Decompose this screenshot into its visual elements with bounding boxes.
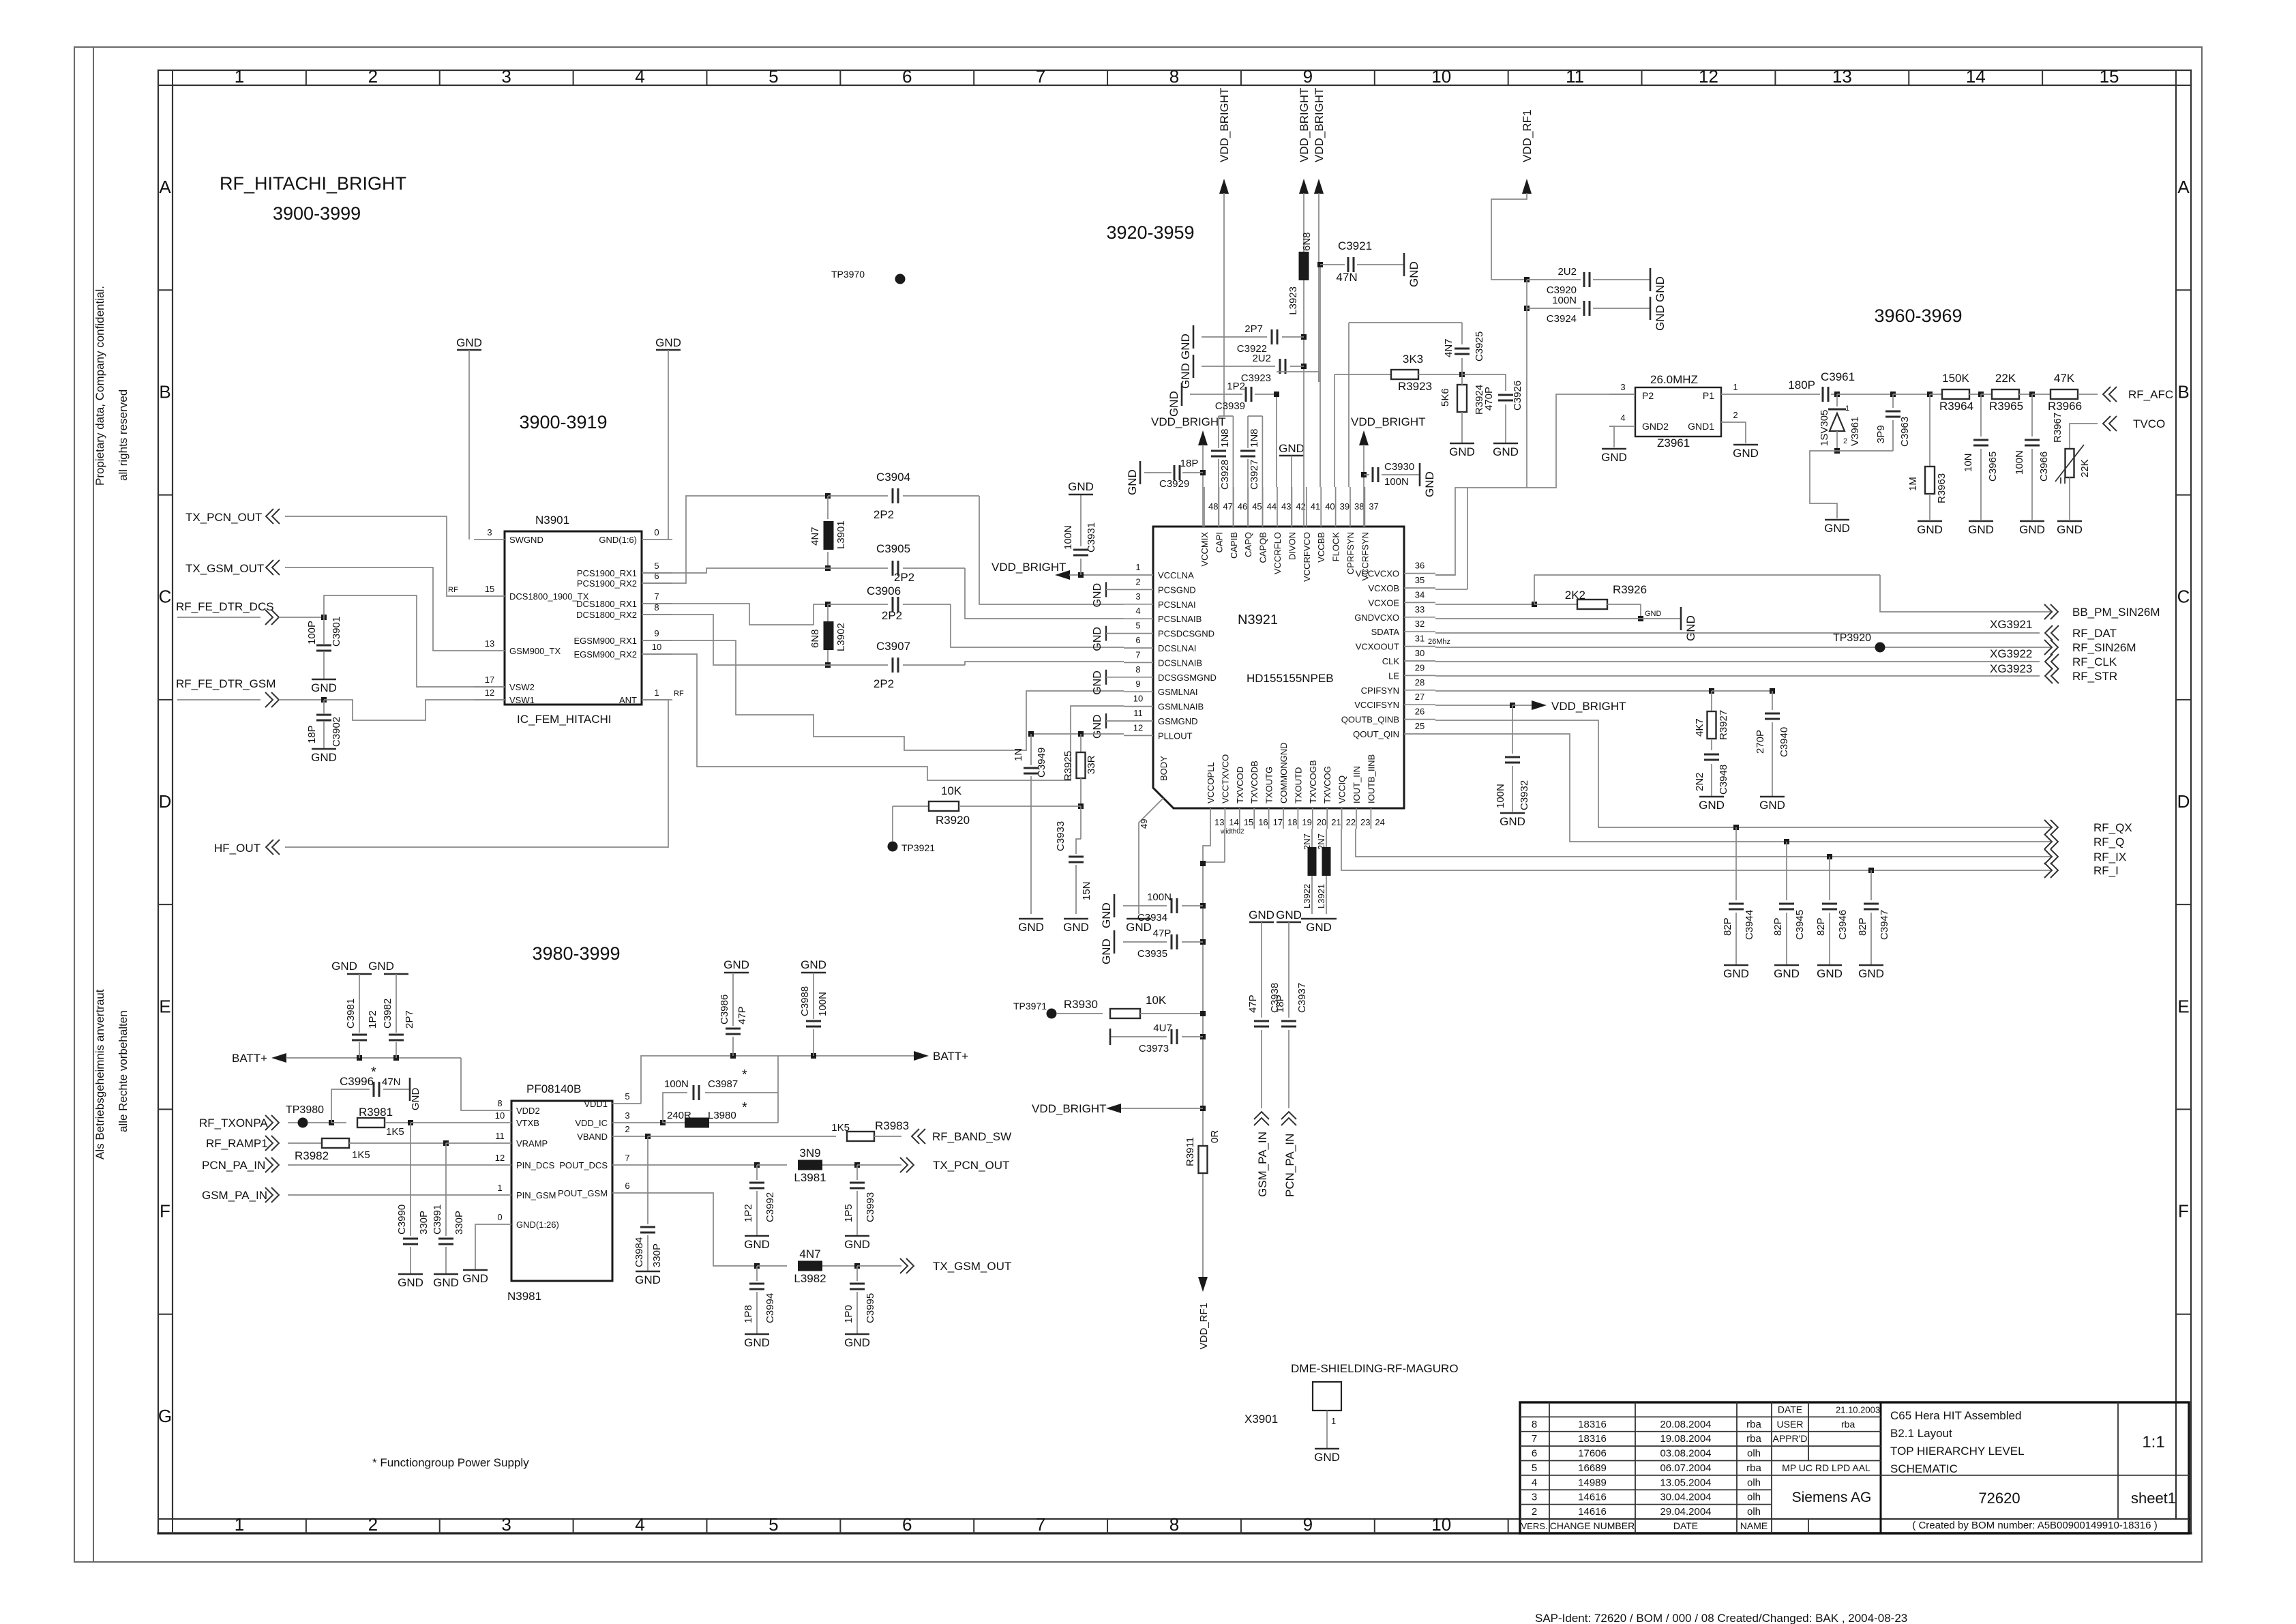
svg-text:GND: GND [1449, 445, 1475, 458]
svg-text:GND: GND [1824, 522, 1850, 535]
svg-text:CPRFSYN: CPRFSYN [1345, 532, 1356, 574]
svg-text:rba: rba [1746, 1433, 1761, 1445]
svg-text:TP3921: TP3921 [901, 842, 935, 853]
svg-text:VDD_BRIGHT: VDD_BRIGHT [1298, 87, 1311, 162]
svg-text:IC_FEM_HITACHI: IC_FEM_HITACHI [517, 713, 612, 726]
svg-text:1P2: 1P2 [367, 1010, 378, 1029]
svg-text:GND: GND [1063, 921, 1089, 934]
svg-text:3: 3 [487, 527, 492, 537]
svg-text:20.08.2004: 20.08.2004 [1660, 1419, 1711, 1430]
svg-text:C3907: C3907 [876, 640, 910, 653]
svg-text:VCXOB: VCXOB [1368, 583, 1399, 593]
svg-text:TX_GSM_OUT: TX_GSM_OUT [933, 1260, 1011, 1273]
svg-text:XG3923: XG3923 [1990, 662, 2032, 675]
svg-text:6: 6 [625, 1181, 629, 1191]
svg-text:( Created by BOM number: A5B00: ( Created by BOM number: A5B00900149910-… [1912, 1520, 2157, 1531]
svg-text:2N2: 2N2 [1694, 772, 1705, 791]
svg-text:GND: GND [1068, 480, 1094, 493]
svg-text:4N7: 4N7 [809, 527, 821, 546]
svg-text:VCCOPLL: VCCOPLL [1206, 762, 1216, 803]
svg-text:N3921: N3921 [1238, 612, 1278, 628]
svg-text:10N: 10N [1963, 453, 1974, 472]
svg-text:C65 Hera HIT Assembled: C65 Hera HIT Assembled [1890, 1409, 2021, 1422]
svg-text:L3980: L3980 [708, 1110, 736, 1121]
svg-text:3: 3 [501, 66, 511, 87]
svg-text:QOUTB_QINB: QOUTB_QINB [1341, 715, 1399, 725]
svg-text:TX_GSM_OUT: TX_GSM_OUT [185, 562, 264, 575]
svg-text:RF: RF [448, 586, 458, 594]
svg-text:10: 10 [495, 1110, 505, 1121]
svg-text:SAP-Ident: 72620 / BOM / 000 /: SAP-Ident: 72620 / BOM / 000 / 08 Create… [1535, 1612, 1907, 1624]
svg-text:RF_RAMP1: RF_RAMP1 [206, 1137, 268, 1150]
svg-text:C3947: C3947 [1879, 910, 1890, 940]
svg-text:GNDVCXO: GNDVCXO [1354, 612, 1399, 623]
svg-text:1: 1 [1845, 404, 1849, 413]
svg-text:VCCRFSYN: VCCRFSYN [1360, 532, 1370, 581]
svg-text:DME-SHIELDING-RF-MAGURO: DME-SHIELDING-RF-MAGURO [1291, 1362, 1459, 1375]
svg-text:12: 12 [495, 1153, 505, 1163]
svg-text:alle Rechte vorbehalten: alle Rechte vorbehalten [117, 1010, 130, 1132]
svg-text:GND: GND [1733, 447, 1759, 460]
svg-text:10: 10 [1431, 1514, 1451, 1535]
svg-text:GND: GND [1423, 471, 1436, 497]
svg-text:R3920: R3920 [936, 814, 970, 827]
svg-text:USER: USER [1777, 1419, 1804, 1430]
svg-text:18P: 18P [306, 725, 318, 743]
svg-text:100N: 100N [664, 1078, 689, 1090]
svg-text:DCS1800_RX2: DCS1800_RX2 [576, 610, 637, 620]
svg-text:CAPIB: CAPIB [1229, 532, 1239, 559]
svg-text:P2: P2 [1642, 390, 1654, 401]
svg-text:36: 36 [1415, 561, 1425, 571]
svg-text:C3932: C3932 [1519, 780, 1530, 810]
svg-text:GND: GND [433, 1276, 459, 1289]
svg-text:GND1: GND1 [1688, 421, 1714, 432]
svg-text:TP3920: TP3920 [1833, 632, 1871, 644]
svg-text:GND: GND [744, 1336, 770, 1349]
svg-text:2P7: 2P7 [404, 1010, 415, 1029]
svg-text:CAPQ: CAPQ [1243, 532, 1253, 557]
svg-text:33: 33 [1415, 604, 1425, 615]
svg-text:49: 49 [1139, 819, 1149, 829]
svg-text:C3949: C3949 [1036, 748, 1047, 778]
svg-text:2: 2 [625, 1124, 629, 1134]
svg-text:VBAND: VBAND [577, 1132, 608, 1142]
svg-text:C3905: C3905 [876, 542, 910, 555]
svg-text:2N7: 2N7 [1316, 833, 1326, 850]
svg-text:15N: 15N [1081, 881, 1092, 900]
svg-text:GND: GND [1723, 967, 1749, 980]
svg-text:IOUT_IIN: IOUT_IIN [1352, 766, 1362, 803]
svg-text:PCSGND: PCSGND [1158, 585, 1196, 595]
svg-text:GND: GND [1092, 714, 1103, 739]
svg-text:10: 10 [1431, 66, 1451, 87]
svg-text:1: 1 [654, 688, 659, 698]
svg-text:33R: 33R [1086, 755, 1097, 774]
svg-text:TXVCOGB: TXVCOGB [1308, 760, 1318, 803]
svg-text:470P: 470P [1483, 387, 1495, 411]
svg-text:PLLOUT: PLLOUT [1158, 730, 1193, 741]
svg-text:GSM_PA_IN: GSM_PA_IN [1256, 1132, 1269, 1197]
svg-text:2: 2 [1135, 576, 1140, 587]
svg-text:* Functiongroup Power Supply: * Functiongroup Power Supply [372, 1456, 529, 1469]
svg-text:2: 2 [1843, 437, 1847, 445]
svg-text:GND: GND [1817, 967, 1843, 980]
svg-text:GND: GND [1092, 670, 1103, 695]
svg-text:C3945: C3945 [1794, 910, 1806, 940]
svg-text:10K: 10K [941, 784, 962, 797]
svg-text:GND: GND [456, 336, 482, 349]
svg-text:GND: GND [1276, 909, 1302, 921]
svg-text:100N: 100N [817, 992, 829, 1016]
svg-text:GND: GND [1500, 815, 1525, 828]
svg-text:C3933: C3933 [1055, 821, 1067, 851]
svg-text:GSMGND: GSMGND [1158, 716, 1198, 726]
svg-text:C3991: C3991 [432, 1205, 443, 1235]
svg-text:CPIFSYN: CPIFSYN [1361, 685, 1399, 696]
svg-text:VDD_BRIGHT: VDD_BRIGHT [1351, 415, 1426, 428]
svg-text:2P2: 2P2 [874, 677, 894, 690]
svg-text:L3921: L3921 [1316, 884, 1326, 909]
svg-text:1: 1 [1331, 1416, 1336, 1426]
svg-text:GND: GND [1968, 523, 1994, 536]
svg-text:GND: GND [1092, 627, 1103, 651]
svg-text:VTXB: VTXB [516, 1118, 539, 1128]
svg-text:C3902: C3902 [331, 717, 342, 747]
svg-text:HD155155NPEB: HD155155NPEB [1247, 672, 1334, 685]
svg-text:11: 11 [1566, 66, 1584, 87]
svg-text:GND: GND [1306, 921, 1332, 934]
svg-text:C: C [159, 587, 172, 607]
svg-text:100N: 100N [1384, 476, 1409, 488]
svg-text:DIVON: DIVON [1287, 532, 1297, 560]
svg-text:GND: GND [2019, 523, 2045, 536]
svg-text:L3982: L3982 [794, 1272, 826, 1285]
svg-text:C3984: C3984 [633, 1237, 645, 1267]
svg-text:R3964: R3964 [1939, 400, 1973, 413]
svg-text:C3928: C3928 [1219, 460, 1231, 490]
svg-text:6N8: 6N8 [809, 629, 821, 648]
svg-text:POUT_GSM: POUT_GSM [558, 1188, 608, 1198]
svg-text:100N: 100N [2014, 450, 2025, 475]
svg-text:1N8: 1N8 [1249, 428, 1260, 447]
svg-text:44: 44 [1267, 501, 1277, 512]
svg-text:DCSLNAI: DCSLNAI [1158, 643, 1196, 653]
svg-text:F: F [2178, 1201, 2189, 1222]
svg-text:14: 14 [1229, 817, 1238, 827]
svg-text:C3982: C3982 [382, 999, 393, 1029]
svg-text:13.05.2004: 13.05.2004 [1660, 1477, 1711, 1488]
svg-text:all rights reserved: all rights reserved [117, 389, 130, 481]
svg-text:GND: GND [635, 1273, 661, 1286]
svg-text:IOUTB_IINB: IOUTB_IINB [1366, 754, 1376, 803]
svg-text:2: 2 [368, 1514, 378, 1535]
svg-text:12: 12 [1133, 722, 1143, 733]
svg-text:2P7: 2P7 [1244, 323, 1263, 335]
svg-text:PIN_DCS: PIN_DCS [516, 1160, 555, 1170]
svg-text:82P: 82P [1772, 917, 1784, 936]
svg-text:C3965: C3965 [1987, 452, 1999, 482]
svg-text:15: 15 [485, 584, 494, 594]
svg-text:1P8: 1P8 [743, 1305, 754, 1323]
svg-text:P1: P1 [1703, 390, 1714, 401]
svg-text:CAPQB: CAPQB [1258, 532, 1268, 563]
svg-text:7: 7 [1036, 66, 1045, 87]
svg-text:GND: GND [1092, 583, 1103, 608]
svg-text:VERS.: VERS. [1521, 1521, 1547, 1531]
svg-text:15: 15 [2100, 66, 2119, 87]
svg-text:R3981: R3981 [359, 1106, 393, 1119]
svg-text:RF_SIN26M: RF_SIN26M [2072, 641, 2136, 654]
svg-text:C3935: C3935 [1137, 948, 1167, 960]
svg-text:17: 17 [485, 675, 494, 685]
svg-text:ANT: ANT [619, 695, 637, 705]
svg-text:width02: width02 [1220, 828, 1244, 836]
svg-text:2: 2 [1733, 410, 1738, 420]
svg-text:QOUT_QIN: QOUT_QIN [1353, 729, 1399, 739]
svg-text:21.10.2003: 21.10.2003 [1836, 1404, 1880, 1415]
svg-text:R3966: R3966 [2048, 400, 2082, 413]
svg-text:19: 19 [1302, 817, 1311, 827]
svg-text:RF_HITACHI_BRIGHT: RF_HITACHI_BRIGHT [220, 173, 406, 194]
svg-text:VDD_BRIGHT: VDD_BRIGHT [1313, 87, 1326, 162]
svg-text:GND: GND [1645, 610, 1662, 618]
svg-text:14616: 14616 [1578, 1506, 1607, 1518]
svg-text:C3988: C3988 [799, 986, 811, 1016]
svg-text:18316: 18316 [1578, 1433, 1607, 1445]
svg-text:VSW2: VSW2 [509, 682, 535, 692]
svg-text:GND: GND [1684, 615, 1697, 641]
svg-text:GND: GND [398, 1276, 423, 1289]
svg-text:C3927: C3927 [1249, 460, 1260, 490]
svg-text:TP3970: TP3970 [831, 269, 865, 280]
svg-text:E: E [159, 996, 170, 1016]
svg-text:9: 9 [1303, 66, 1313, 87]
svg-text:A: A [159, 177, 171, 197]
svg-text:R3925: R3925 [1062, 751, 1074, 781]
svg-text:GND: GND [410, 1088, 421, 1111]
svg-text:1N: 1N [1013, 748, 1024, 761]
svg-text:GND: GND [1100, 939, 1113, 964]
svg-text:8: 8 [1532, 1419, 1537, 1430]
svg-text:12: 12 [1699, 66, 1718, 87]
svg-text:10: 10 [1133, 694, 1143, 704]
svg-text:30.04.2004: 30.04.2004 [1660, 1492, 1711, 1503]
svg-text:VDD1: VDD1 [584, 1099, 608, 1109]
svg-text:GND: GND [1774, 967, 1800, 980]
svg-text:C3948: C3948 [1718, 765, 1729, 795]
svg-text:VCXOE: VCXOE [1368, 597, 1399, 608]
svg-text:LE: LE [1388, 670, 1399, 681]
svg-text:C3992: C3992 [764, 1192, 776, 1222]
svg-text:72620: 72620 [1978, 1490, 2020, 1507]
svg-text:GND: GND [1179, 334, 1192, 359]
svg-text:C3931: C3931 [1086, 522, 1097, 552]
svg-text:GND: GND [1314, 1451, 1340, 1464]
svg-text:1SV305: 1SV305 [1819, 410, 1830, 446]
svg-text:11: 11 [1133, 708, 1143, 718]
svg-text:0: 0 [654, 527, 659, 537]
svg-text:9: 9 [654, 628, 659, 638]
svg-text:47K: 47K [2054, 372, 2075, 385]
svg-text:1: 1 [1135, 562, 1140, 572]
svg-text:3960-3969: 3960-3969 [1874, 306, 1962, 326]
svg-text:25: 25 [1415, 721, 1425, 731]
svg-text:9: 9 [1135, 679, 1140, 689]
svg-text:GND: GND [1654, 276, 1667, 302]
svg-text:MP UC RD LPD AAL: MP UC RD LPD AAL [1782, 1462, 1870, 1473]
svg-text:RF_I: RF_I [2093, 864, 2119, 877]
svg-text:BATT+: BATT+ [232, 1052, 267, 1065]
svg-text:24: 24 [1375, 817, 1384, 827]
svg-text:GND: GND [1100, 902, 1113, 928]
svg-text:olh: olh [1747, 1477, 1761, 1488]
svg-text:C3904: C3904 [876, 471, 910, 484]
svg-text:3P9: 3P9 [1875, 425, 1887, 443]
svg-text:GND: GND [1249, 909, 1274, 921]
svg-text:1K5: 1K5 [386, 1126, 404, 1138]
svg-text:1:1: 1:1 [2142, 1433, 2164, 1451]
svg-text:C3994: C3994 [764, 1293, 776, 1323]
svg-text:E: E [2177, 996, 2189, 1016]
svg-text:28: 28 [1415, 677, 1425, 688]
svg-text:VRAMP: VRAMP [516, 1138, 548, 1149]
svg-text:100N: 100N [1062, 525, 1074, 550]
svg-text:rba: rba [1841, 1419, 1855, 1430]
svg-text:TXOUTG: TXOUTG [1264, 767, 1274, 803]
svg-text:R3967: R3967 [2052, 413, 2063, 443]
svg-text:1P2: 1P2 [743, 1204, 754, 1222]
svg-text:R3927: R3927 [1718, 710, 1729, 740]
svg-text:26.0MHZ: 26.0MHZ [1650, 373, 1698, 386]
svg-text:3K3: 3K3 [1403, 353, 1423, 366]
svg-text:15: 15 [1244, 817, 1253, 827]
svg-text:39: 39 [1340, 501, 1350, 512]
svg-text:4N7: 4N7 [799, 1247, 820, 1260]
svg-text:DCS1800_RX1: DCS1800_RX1 [576, 599, 637, 609]
svg-text:22K: 22K [1995, 372, 2016, 385]
svg-text:5: 5 [1135, 621, 1140, 631]
svg-text:VDD_BRIGHT: VDD_BRIGHT [992, 561, 1067, 574]
svg-text:B: B [2177, 381, 2189, 402]
svg-text:2P2: 2P2 [894, 571, 914, 584]
svg-text:06.07.2004: 06.07.2004 [1660, 1462, 1711, 1474]
svg-text:RF_Q: RF_Q [2093, 836, 2124, 848]
svg-text:150K: 150K [1942, 372, 1969, 385]
svg-text:1: 1 [497, 1183, 502, 1193]
svg-text:L3981: L3981 [794, 1171, 826, 1184]
svg-text:GND2: GND2 [1642, 421, 1669, 432]
svg-text:olh: olh [1747, 1448, 1761, 1460]
svg-text:18P: 18P [1180, 458, 1199, 469]
svg-text:C: C [2177, 587, 2190, 607]
svg-text:C3993: C3993 [865, 1192, 876, 1222]
svg-text:N3981: N3981 [507, 1290, 541, 1303]
svg-text:Propietary data, Company confi: Propietary data, Company confidential. [93, 286, 106, 486]
svg-text:38: 38 [1354, 501, 1364, 512]
svg-text:VCCIQ: VCCIQ [1337, 776, 1347, 803]
svg-text:RF_FE_DTR_GSM: RF_FE_DTR_GSM [176, 677, 275, 690]
svg-text:4: 4 [635, 66, 644, 87]
svg-text:3980-3999: 3980-3999 [532, 943, 620, 964]
svg-text:DATE: DATE [1673, 1520, 1698, 1531]
svg-text:7: 7 [1036, 1514, 1045, 1535]
svg-text:0: 0 [497, 1212, 502, 1222]
svg-text:5: 5 [769, 1514, 778, 1535]
svg-text:32: 32 [1415, 619, 1425, 629]
svg-text:TOP HIERARCHY LEVEL: TOP HIERARCHY LEVEL [1890, 1445, 2025, 1458]
svg-text:rba: rba [1746, 1462, 1761, 1474]
svg-text:1K5: 1K5 [352, 1149, 370, 1161]
svg-text:21: 21 [1331, 817, 1341, 827]
svg-text:TP3971: TP3971 [1013, 1001, 1047, 1012]
svg-text:GSMLNAIB: GSMLNAIB [1158, 702, 1204, 712]
svg-text:16: 16 [1258, 817, 1268, 827]
svg-text:100N: 100N [1495, 784, 1506, 808]
svg-text:1P0: 1P0 [843, 1305, 854, 1323]
svg-text:2U2: 2U2 [1557, 266, 1577, 278]
svg-text:GND: GND [311, 681, 337, 694]
svg-text:TX_PCN_OUT: TX_PCN_OUT [185, 511, 262, 524]
svg-text:VCCMIX: VCCMIX [1199, 532, 1210, 567]
svg-text:rba: rba [1746, 1419, 1761, 1430]
svg-text:2N7: 2N7 [1302, 833, 1312, 850]
svg-text:3: 3 [1620, 382, 1625, 392]
svg-text:330P: 330P [453, 1211, 465, 1235]
svg-text:47P: 47P [1247, 994, 1259, 1013]
svg-text:2: 2 [368, 66, 378, 87]
svg-text:C3939: C3939 [1215, 400, 1245, 412]
svg-text:82P: 82P [1722, 917, 1733, 936]
svg-text:C3923: C3923 [1241, 372, 1271, 384]
svg-text:R3963: R3963 [1936, 473, 1948, 503]
svg-text:30: 30 [1415, 648, 1425, 658]
svg-text:31: 31 [1415, 634, 1425, 644]
svg-text:GND: GND [724, 958, 749, 971]
svg-text:GND: GND [844, 1238, 870, 1251]
svg-text:330P: 330P [651, 1243, 663, 1267]
svg-text:14: 14 [1966, 66, 1986, 87]
svg-text:GND: GND [1699, 799, 1725, 812]
svg-text:6N8: 6N8 [1301, 232, 1313, 251]
svg-text:4N7: 4N7 [1443, 338, 1455, 357]
svg-text:3920-3959: 3920-3959 [1106, 222, 1194, 243]
svg-text:2: 2 [1532, 1506, 1537, 1518]
svg-text:14616: 14616 [1578, 1492, 1607, 1503]
svg-text:DCSGSMGND: DCSGSMGND [1158, 673, 1217, 683]
svg-text:GND: GND [311, 751, 337, 764]
svg-text:RF_CLK: RF_CLK [2072, 655, 2117, 668]
svg-text:C3986: C3986 [719, 994, 730, 1024]
svg-text:6: 6 [1135, 635, 1140, 645]
svg-text:34: 34 [1415, 589, 1425, 600]
svg-text:Siemens AG: Siemens AG [1792, 1490, 1872, 1505]
svg-text:X3901: X3901 [1244, 1413, 1278, 1426]
svg-text:5: 5 [625, 1091, 629, 1102]
svg-text:C3995: C3995 [865, 1293, 876, 1323]
svg-text:37: 37 [1369, 501, 1378, 512]
svg-text:C3929: C3929 [1159, 478, 1189, 490]
svg-text:13: 13 [1214, 817, 1224, 827]
svg-text:*: * [371, 1065, 376, 1080]
svg-text:26Mhz: 26Mhz [1428, 638, 1450, 646]
svg-text:VDD_BRIGHT: VDD_BRIGHT [1218, 87, 1231, 162]
svg-text:180P: 180P [1788, 379, 1815, 392]
svg-text:RF_IX: RF_IX [2093, 851, 2126, 863]
svg-text:POUT_DCS: POUT_DCS [559, 1160, 608, 1170]
svg-text:EGSM900_RX1: EGSM900_RX1 [574, 636, 638, 646]
svg-text:R3982: R3982 [295, 1149, 329, 1162]
